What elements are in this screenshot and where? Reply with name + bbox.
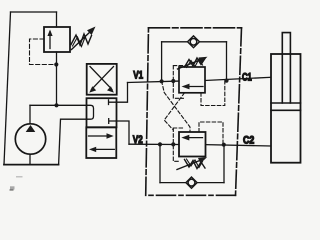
tank	[4, 164, 59, 166]
counterbalance valve CB1 bypass riser left	[161, 42, 163, 81]
CB2 direct pilot entry (dashed)	[173, 128, 183, 161]
CB1 drain line (dashed)	[201, 81, 225, 106]
valve assembly enclosure bottom (dash-dot)	[146, 194, 236, 196]
cross pilot from CB1 to V2 (dashed)	[164, 93, 184, 130]
node V2 bypass junction	[158, 142, 162, 146]
wire CB2 bypass bottom right	[197, 182, 224, 184]
wire CB1 bypass riser right	[226, 42, 228, 81]
relief valve RV1 pilot line (dashed)	[30, 39, 55, 65]
counterbalance valve CB1 box	[179, 67, 205, 93]
check valve CV1 diamond	[188, 36, 200, 48]
cylinder CYL1 piston	[271, 103, 301, 110]
svg-text:C1: C1	[242, 71, 252, 84]
valve assembly enclosure right (dash-dot)	[236, 28, 242, 196]
counterbalance valve CB2 adjust arrow	[177, 157, 207, 169]
wire pump suction	[29, 154, 31, 164]
node pilot junction	[54, 62, 58, 66]
CB2 drain line (dashed)	[199, 122, 223, 144]
wire tank return from relief valve (left vertical)	[4, 12, 11, 165]
relief valve RV1 (system relief, top-left) box	[44, 27, 70, 52]
pump P1 circle	[15, 124, 45, 154]
wire relief outlet riser	[56, 12, 58, 27]
CB2 bypass riser left	[159, 144, 161, 182]
wire pump pressure line to valve	[30, 104, 87, 106]
relief valve RV1 spring	[71, 34, 92, 45]
wire top line	[11, 11, 57, 13]
wire CB2 bypass bottom left	[160, 182, 186, 184]
wire CB1 bypass top left	[162, 41, 188, 43]
pump P1 triangle	[26, 125, 36, 132]
check valve CV2 ball	[188, 179, 195, 186]
wire V2 stub from valve	[117, 121, 130, 144]
wire relief inlet	[56, 52, 58, 105]
node V1 bypass junction	[160, 79, 164, 83]
counterbalance valve CB1 adjust arrow	[178, 57, 208, 69]
counterbalance valve CB2 spring	[185, 160, 206, 169]
directional valve DV1 top box crossed arrows	[89, 67, 114, 93]
check valve CV2 diamond	[186, 177, 197, 188]
scan speck 3	[16, 176, 23, 177]
wire V1 stub from valve	[117, 83, 128, 103]
relief valve RV1 internal arrow	[47, 30, 52, 49]
cross pilot from V1 to CB2 (dashed)	[162, 81, 190, 132]
valve assembly enclosure top (dash-dot)	[149, 27, 242, 29]
node C2 junction	[222, 143, 226, 147]
wire C2 line	[206, 145, 272, 146]
counterbalance valve CB1 internal arrow	[182, 84, 204, 90]
wire V1 line	[128, 81, 180, 82]
scan speck 2	[10, 189, 14, 190]
svg-text:V1: V1	[133, 69, 143, 82]
directional valve DV1 bottom box parallel arrows	[89, 133, 115, 152]
check valve CV1 ball	[190, 39, 197, 46]
wire V2 line	[129, 143, 179, 145]
cylinder CYL1 body	[271, 54, 301, 163]
cylinder CYL1 rod	[282, 33, 290, 103]
counterbalance valve CB2 internal arrow	[181, 135, 202, 141]
scan speck 1	[10, 186, 15, 189]
wire pump outlet	[29, 105, 31, 124]
wire C1 line	[205, 77, 271, 80]
directional valve DV1 centre box blocked port B	[109, 119, 117, 124]
wire tank return from valve	[59, 119, 87, 164]
node pump line junction	[54, 103, 58, 107]
node V2 pilot junction	[171, 142, 175, 146]
wire CB1 bypass top right	[199, 41, 226, 43]
directional valve DV1 centre box P-T bypass	[87, 105, 94, 119]
wire CB2 bypass riser right	[223, 145, 225, 183]
CB1 direct pilot top entry (dashed)	[173, 66, 183, 99]
node V1 pilot junction	[171, 79, 175, 83]
counterbalance valve CB2 box	[179, 132, 206, 157]
directional valve DV1 bottom box	[86, 127, 116, 158]
valve assembly enclosure left (dash-dot)	[146, 28, 149, 196]
counterbalance valve CB1 spring	[185, 58, 206, 67]
node C1 junction	[224, 79, 228, 83]
directional valve DV1 top box	[87, 64, 117, 95]
directional valve DV1 middle box	[87, 98, 117, 127]
relief valve RV1 adjust arrow	[72, 27, 96, 50]
svg-text:V2: V2	[133, 134, 143, 147]
directional valve DV1 centre box blocked port A	[109, 100, 117, 105]
svg-text:C2: C2	[243, 134, 255, 146]
